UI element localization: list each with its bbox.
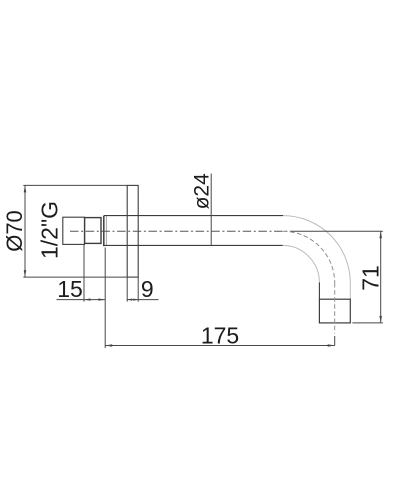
- outlet inner wall: [318, 282, 320, 299]
- thread 1/2"G: [85, 218, 101, 244]
- dim 15 extension left: [83, 245, 85, 302]
- svg-text:Ø70: Ø70: [2, 210, 27, 252]
- arrow 175 right: [328, 344, 335, 346]
- dim O70 extension top: [23, 184, 127, 186]
- arrow 175 left: [105, 344, 112, 346]
- dim 71 extension bottom: [352, 322, 383, 324]
- arrow 71 down: [379, 316, 382, 323]
- svg-text:ø24: ø24: [191, 173, 214, 210]
- dim O70 line: [24, 185, 26, 277]
- wall flange: [127, 185, 138, 277]
- bend inner arc: [282, 245, 319, 282]
- dim 15/175 extension shared: [104, 248, 106, 349]
- svg-text:71: 71: [357, 265, 383, 291]
- dim O70 extension bottom: [23, 276, 127, 278]
- tube top wall: [104, 215, 283, 217]
- svg-text:1/2"G: 1/2"G: [37, 201, 63, 259]
- svg-text:15: 15: [57, 276, 83, 302]
- tube bottom wall: [104, 244, 283, 246]
- tube end cap line: [103, 216, 105, 247]
- centerline bend arc: [283, 231, 335, 283]
- joint line (grey): [105, 216, 107, 247]
- dim 9 extension left: [126, 277, 128, 302]
- bend outer arc: [283, 216, 350, 283]
- outlet nozzle: [319, 299, 350, 323]
- svg-text:175: 175: [201, 323, 239, 349]
- svg-text:9: 9: [141, 276, 154, 302]
- arrow O70 down: [24, 270, 27, 277]
- dim 71 line: [380, 231, 382, 323]
- centerline horizontal: [70, 230, 292, 232]
- arrow 15 right: [98, 298, 105, 300]
- arrow 9 right: [133, 299, 138, 301]
- outlet outer wall (grey): [349, 283, 351, 299]
- arrow 15 left: [84, 298, 91, 300]
- dim o24 leader line: [210, 174, 212, 246]
- dim 175 extension right: [334, 336, 336, 346]
- centerline outlet vertical: [334, 283, 336, 334]
- wall union block: [63, 217, 85, 244]
- dim 175 line: [105, 345, 335, 347]
- arrow O70 up: [24, 185, 27, 192]
- arrow 9 left: [127, 299, 132, 301]
- arrow 71 up: [379, 231, 382, 238]
- dim 9 line: [127, 299, 159, 301]
- dim 71 extension top: [292, 230, 383, 232]
- dim 9 extension right: [137, 277, 139, 302]
- dim 15 line: [57, 299, 105, 301]
